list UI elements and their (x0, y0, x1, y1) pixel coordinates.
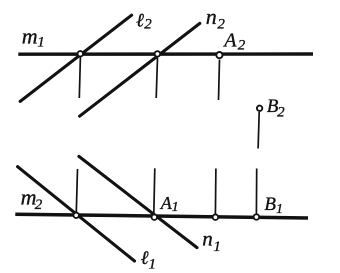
wire: projection connector below n2 x m1 (156, 58, 157, 98)
node l2 x m1 (78, 51, 84, 57)
line l1 (18, 167, 135, 261)
node B1 (254, 214, 260, 220)
svg-text:m: m (22, 24, 38, 49)
svg-text:1: 1 (276, 202, 283, 217)
svg-text:1: 1 (149, 256, 157, 272)
svg-text:A: A (222, 30, 237, 52)
wire: projection connector below B2 (258, 112, 259, 149)
wire: projection connector above third node (214, 169, 217, 215)
svg-text:n: n (206, 4, 217, 29)
node between A1 and B1 (213, 214, 219, 220)
svg-text:2: 2 (35, 197, 43, 213)
wire: projection connector below A2 (219, 60, 220, 101)
node A1 (152, 214, 158, 220)
svg-text:1: 1 (172, 200, 179, 215)
line n1 (79, 156, 197, 247)
line n2 (80, 23, 200, 116)
svg-text:2: 2 (144, 16, 152, 32)
wire: projection connector above B1 (255, 169, 257, 215)
node n2 x m1 (155, 51, 161, 57)
svg-text:1: 1 (213, 239, 221, 255)
svg-text:ℓ: ℓ (136, 11, 144, 32)
svg-text:ℓ: ℓ (141, 248, 149, 269)
node A2 (216, 52, 222, 58)
line m1 (horizontal axis, top view) (18, 52, 313, 56)
svg-text:1: 1 (37, 34, 45, 50)
node l1 x m2 (73, 213, 79, 219)
node B2 (257, 106, 262, 111)
line l2 (20, 15, 131, 101)
svg-text:2: 2 (238, 37, 246, 53)
wire: projection connector above l1 x m2 (76, 169, 77, 212)
svg-text:B: B (264, 194, 276, 215)
line m2 (horizontal axis, bottom view) (15, 214, 308, 218)
wire: projection connector above A1 (154, 168, 155, 214)
wire: projection connector below l2 x m1 (79, 57, 80, 98)
svg-text:n: n (202, 227, 213, 251)
svg-text:2: 2 (277, 105, 285, 121)
